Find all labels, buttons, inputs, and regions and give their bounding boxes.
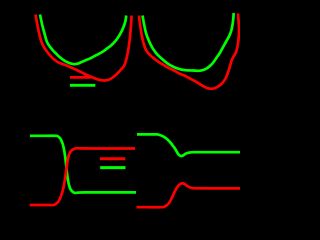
red energy level bar in left well [70, 76, 91, 79]
red control trace, right segment with step up and overshoot [137, 183, 241, 207]
short green hold bar (middle) [100, 166, 125, 169]
upper adiabatic energy curve, left well (green) [40, 15, 126, 65]
upper adiabatic energy curve, right well (green) [143, 13, 234, 71]
red control trace, left segment with upward sweep [30, 148, 135, 205]
lower adiabatic energy curve, right well (red) [139, 14, 239, 89]
green control trace, right segment with step down and undershoot [137, 134, 240, 156]
green energy level bar in left well [70, 84, 95, 87]
green control trace, left segment with downward sweep [30, 136, 136, 193]
lower adiabatic energy curve, left well (red) [36, 15, 132, 81]
short red hold bar (middle) [100, 157, 125, 160]
